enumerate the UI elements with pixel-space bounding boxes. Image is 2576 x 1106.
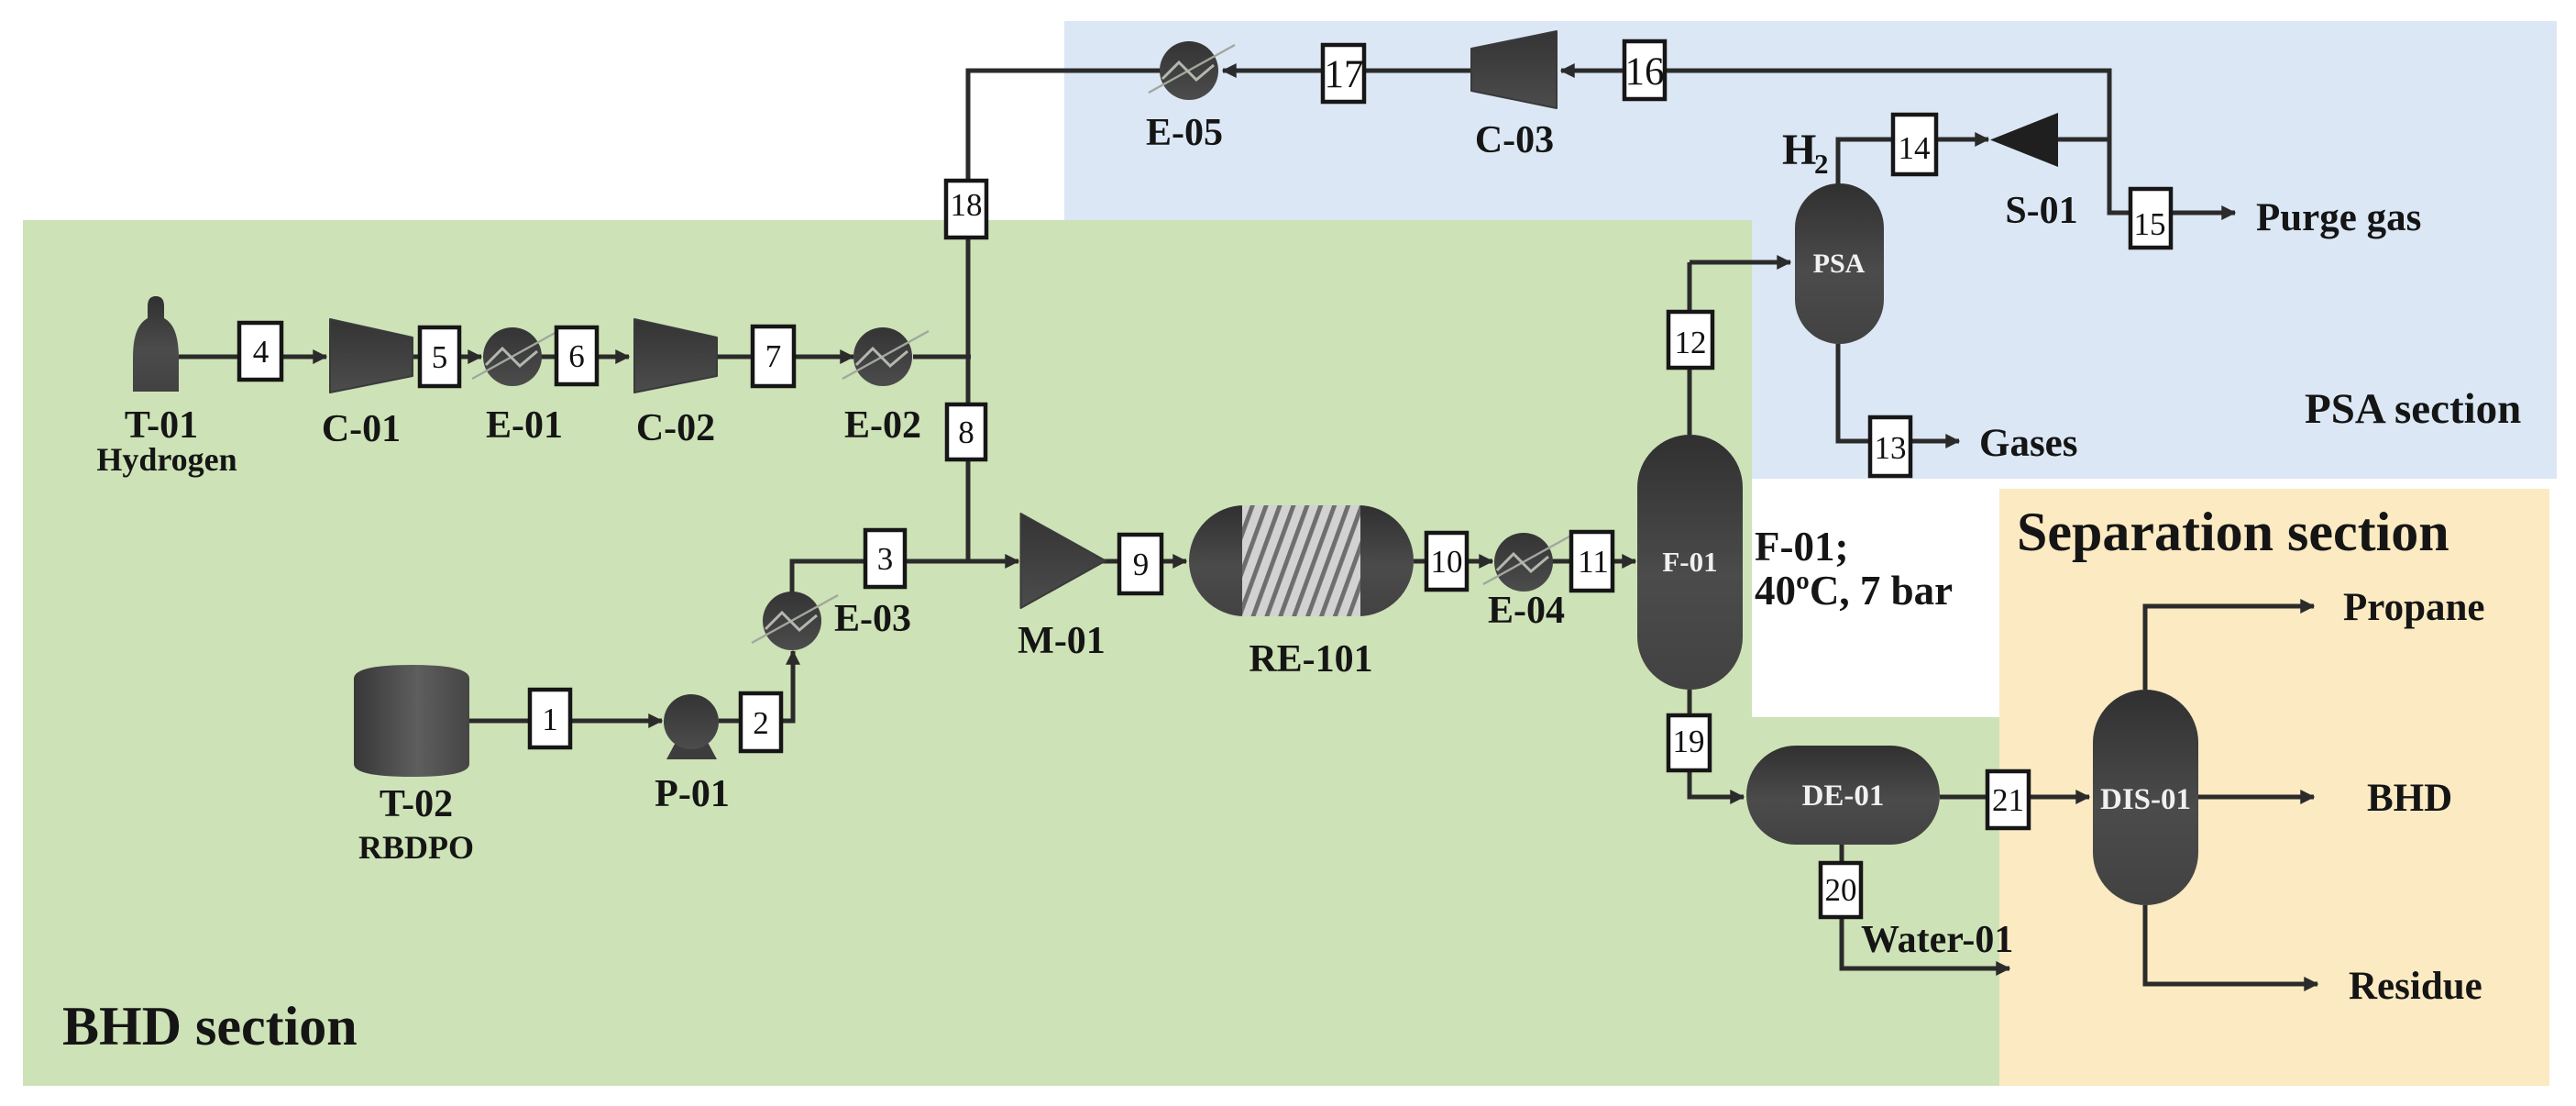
svg-text:11: 11	[1578, 544, 1609, 580]
svg-text:E-05: E-05	[1146, 112, 1223, 154]
svg-text:19: 19	[1673, 724, 1705, 759]
svg-text:4: 4	[253, 334, 270, 370]
svg-text:8: 8	[958, 415, 974, 450]
svg-text:PSA: PSA	[1813, 249, 1866, 279]
svg-text:20: 20	[1825, 872, 1857, 908]
svg-text:E-04: E-04	[1488, 590, 1565, 632]
svg-text:E-02: E-02	[844, 404, 921, 447]
svg-text:5: 5	[432, 339, 448, 375]
svg-text:F-01: F-01	[1662, 546, 1717, 578]
svg-text:7: 7	[765, 338, 782, 374]
svg-text:PSA section: PSA section	[2305, 385, 2521, 433]
svg-text:40ºC, 7 bar: 40ºC, 7 bar	[1755, 568, 1953, 614]
svg-text:Purge gas: Purge gas	[2256, 196, 2421, 239]
svg-text:Hydrogen: Hydrogen	[96, 441, 237, 478]
svg-text:13: 13	[1875, 430, 1907, 466]
svg-text:S-01: S-01	[2005, 190, 2077, 232]
svg-text:16: 16	[1625, 50, 1665, 94]
svg-text:C-02: C-02	[636, 407, 715, 449]
svg-text:9: 9	[1133, 547, 1150, 582]
svg-text:Water-01: Water-01	[1861, 919, 2013, 961]
svg-text:E-03: E-03	[834, 598, 911, 640]
svg-text:P-01: P-01	[655, 773, 730, 815]
svg-text:21: 21	[1992, 782, 2024, 818]
svg-text:DIS-01: DIS-01	[2100, 783, 2191, 816]
svg-text:15: 15	[2134, 206, 2166, 242]
svg-text:DE-01: DE-01	[1802, 780, 1885, 813]
svg-text:18: 18	[951, 187, 983, 223]
svg-text:Gases: Gases	[1979, 422, 2078, 465]
svg-text:17: 17	[1325, 53, 1364, 96]
svg-text:Separation section: Separation section	[2017, 502, 2449, 562]
svg-text:6: 6	[568, 338, 585, 374]
svg-text:F-01;: F-01;	[1755, 524, 1848, 570]
svg-text:BHD section: BHD section	[62, 996, 358, 1056]
svg-text:10: 10	[1431, 544, 1463, 580]
svg-text:3: 3	[877, 541, 894, 577]
svg-text:T-02: T-02	[380, 783, 453, 825]
svg-text:2: 2	[1814, 148, 1829, 180]
svg-text:Residue: Residue	[2349, 965, 2482, 1008]
svg-text:Propane: Propane	[2343, 586, 2485, 629]
svg-text:RE-101: RE-101	[1249, 638, 1372, 680]
svg-text:14: 14	[1899, 130, 1931, 166]
svg-text:M-01: M-01	[1018, 620, 1106, 662]
svg-text:12: 12	[1675, 325, 1707, 360]
svg-text:C-01: C-01	[322, 408, 401, 450]
svg-text:RBDPO: RBDPO	[358, 829, 474, 866]
svg-text:H: H	[1782, 126, 1816, 174]
svg-text:BHD: BHD	[2367, 777, 2452, 820]
svg-text:C-03: C-03	[1475, 119, 1554, 161]
svg-text:1: 1	[542, 702, 558, 737]
svg-text:E-01: E-01	[486, 404, 563, 447]
svg-text:2: 2	[753, 705, 769, 741]
